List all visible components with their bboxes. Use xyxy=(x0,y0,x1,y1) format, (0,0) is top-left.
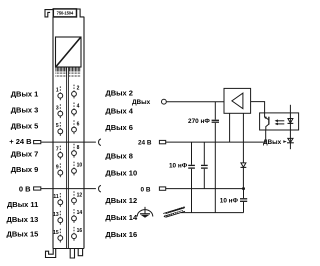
wire amp pin to diode D1 xyxy=(242,113,244,163)
wire amp pin to 24V rail xyxy=(229,113,231,142)
svg-text:12: 12 xyxy=(77,192,83,198)
0V rail wire xyxy=(166,188,244,190)
phototransistor Q1 xyxy=(264,113,269,130)
functional earth symbol at DO14 xyxy=(137,207,153,218)
wire output branch vertical xyxy=(289,105,291,149)
24V rail wire xyxy=(166,130,266,142)
svg-text:750-1504: 750-1504 xyxy=(57,11,74,16)
24V rail plug xyxy=(159,140,165,143)
+24V left feed: label, plug, wire, spring contact arc xyxy=(9,137,101,146)
svg-text:ДВых 13: ДВых 13 xyxy=(7,215,39,224)
terminal clamp 4 xyxy=(72,103,80,117)
wire amp output to optocoupler xyxy=(251,102,265,113)
chassis line xyxy=(181,212,244,214)
label DO output with arrow xyxy=(263,139,287,146)
op-amp U1 output driver xyxy=(224,88,251,113)
capacitor C2 10nF xyxy=(201,142,208,189)
svg-text:7: 7 xyxy=(56,147,59,153)
svg-text:ДВых 4: ДВых 4 xyxy=(105,107,133,116)
svg-text:16: 16 xyxy=(77,228,83,234)
0V rail plug xyxy=(159,187,165,190)
terminal clamp 14 xyxy=(72,209,83,223)
terminal clamp 12 xyxy=(72,191,83,205)
terminal clamp 16 xyxy=(72,227,83,241)
junction dot on 0V rail xyxy=(242,187,245,190)
svg-text:9: 9 xyxy=(56,165,59,171)
svg-text:ДВых: ДВых xyxy=(132,99,151,106)
svg-text:ДВых 5: ДВых 5 xyxy=(11,122,39,131)
electronics box with isolation diagonal xyxy=(56,37,82,67)
svg-text:2: 2 xyxy=(77,86,80,92)
svg-text:4: 4 xyxy=(77,104,80,110)
capacitor C1 10nF xyxy=(188,142,195,213)
terminal clamp 3 xyxy=(56,104,63,118)
svg-text:ДВых 14: ДВых 14 xyxy=(105,213,138,222)
diode D1 to 0V xyxy=(241,163,247,189)
wire DO terminal to amplifier xyxy=(166,101,224,103)
svg-text:ДВых 7: ДВых 7 xyxy=(11,150,39,159)
svg-text:10 нФ: 10 нФ xyxy=(220,198,239,205)
terminal clamp 1 xyxy=(56,86,63,100)
svg-text:ДВых 8: ДВых 8 xyxy=(105,151,133,160)
optocoupler U2 box xyxy=(260,113,299,130)
terminal clamp 11 xyxy=(53,193,62,207)
svg-text:10 нФ: 10 нФ xyxy=(169,162,188,169)
svg-text:0 В: 0 В xyxy=(19,185,31,194)
svg-text:ДВых 15: ДВых 15 xyxy=(7,230,39,239)
svg-text:11: 11 xyxy=(53,194,59,200)
svg-text:14: 14 xyxy=(77,210,83,216)
diode D2 in optocoupler xyxy=(288,119,294,124)
terminal clamp 5 xyxy=(56,122,63,136)
svg-text:270 нФ: 270 нФ xyxy=(188,118,210,125)
terminal clamp 13 xyxy=(53,211,63,225)
capacitor C3 10nF xyxy=(220,189,247,213)
svg-text:ДВых 9: ДВых 9 xyxy=(11,165,39,174)
svg-text:8: 8 xyxy=(77,145,80,151)
svg-text:ДВых 16: ДВых 16 xyxy=(105,230,137,239)
svg-text:ДВых 1: ДВых 1 xyxy=(11,89,39,98)
svg-text:0 В: 0 В xyxy=(141,186,151,193)
internal bus lines xyxy=(67,67,69,249)
part number label box xyxy=(53,9,76,17)
left channel labels xyxy=(7,89,39,238)
svg-text:ДВых 2: ДВых 2 xyxy=(105,89,133,98)
svg-text:ДВых 3: ДВых 3 xyxy=(11,106,39,115)
svg-text:ДВых 12: ДВых 12 xyxy=(105,196,137,205)
svg-text:15: 15 xyxy=(53,230,59,236)
svg-text:+ 24 В: + 24 В xyxy=(9,137,32,146)
module outline 750-1504 xyxy=(45,9,84,258)
svg-text:24 В: 24 В xyxy=(138,139,152,146)
terminal clamp 8 xyxy=(72,144,80,158)
svg-text:1: 1 xyxy=(56,88,59,94)
svg-text:6: 6 xyxy=(77,121,80,127)
svg-text:13: 13 xyxy=(53,212,59,218)
terminal clamp 15 xyxy=(53,229,63,243)
terminal clamp 10 xyxy=(72,162,83,176)
svg-text:5: 5 xyxy=(56,123,59,129)
capacitor C4 270nF with value label xyxy=(188,102,219,213)
svg-text:ДВых 6: ДВых 6 xyxy=(105,123,133,132)
right channel labels xyxy=(105,89,138,240)
diode D3 output clamp xyxy=(287,138,294,142)
svg-text:3: 3 xyxy=(56,105,59,111)
terminal clamp 2 xyxy=(72,85,80,99)
light arrows xyxy=(275,119,285,125)
chassis ground symbol xyxy=(163,207,185,218)
wire comb under electronics box xyxy=(56,67,80,77)
svg-text:10: 10 xyxy=(77,163,83,169)
terminal circle DO input xyxy=(162,99,167,104)
terminal clamp 7 xyxy=(56,146,63,160)
0V left feed: label, plug, wire, spring contact arc xyxy=(19,185,101,194)
terminal clamp 6 xyxy=(72,120,80,134)
svg-text:ДВых 10: ДВых 10 xyxy=(105,169,137,178)
svg-text:ДВых 11: ДВых 11 xyxy=(7,200,38,209)
terminal clamp 9 xyxy=(56,163,63,177)
